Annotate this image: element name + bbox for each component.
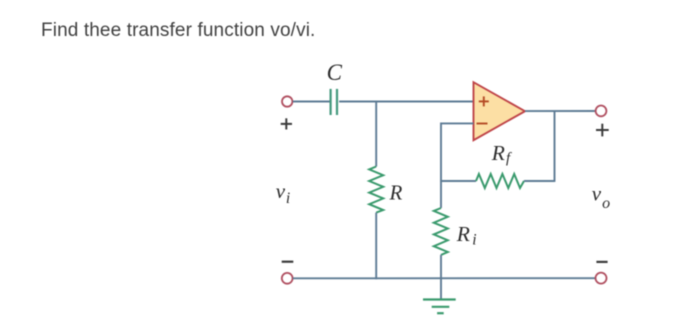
terminal: input bottom — [282, 273, 293, 284]
resistor Ri — [434, 208, 448, 255]
wire: inverting input down to Ri — [440, 123, 442, 209]
wire: resistor R to bottom rail — [375, 213, 377, 280]
wire: Ri to ground through bottom rail — [440, 255, 442, 300]
wire: vertical riser to output wire — [554, 111, 556, 182]
resistor Rf — [476, 174, 524, 188]
svg-text:Find thee transfer function vo: Find thee transfer function vo/vi. — [41, 20, 315, 41]
wire: inverting input horizontal — [441, 122, 474, 124]
svg-text:Ri: Ri — [456, 222, 477, 249]
wire: vertical down to resistor R — [375, 101, 377, 167]
svg-text:vo: vo — [592, 182, 610, 212]
terminal: output top (vo +) — [596, 106, 607, 117]
op-amp minus input marking — [477, 123, 488, 125]
wire: op-amp output to output terminal — [525, 110, 596, 112]
wire: feedback left segment to Rf — [440, 180, 476, 182]
terminal: output bottom — [596, 273, 607, 284]
wire: Rf to output vertical riser — [524, 180, 555, 182]
label plus output side — [596, 124, 609, 137]
resistor R — [369, 167, 383, 213]
svg-text:vi: vi — [276, 179, 290, 207]
svg-text:R: R — [389, 181, 403, 205]
op-amp plus input marking — [479, 96, 489, 106]
wire: input terminal to capacitor — [293, 101, 330, 103]
capacitor C — [331, 89, 337, 115]
ground — [423, 300, 456, 314]
svg-text:Rf: Rf — [491, 141, 512, 167]
label plus input side — [281, 118, 292, 129]
wire: bottom rail — [293, 277, 596, 279]
op-amp U1 — [474, 82, 526, 140]
label minus input side — [282, 261, 294, 263]
terminal: input top (vi +) — [282, 96, 292, 106]
wire: capacitor to op-amp noninverting input — [339, 101, 473, 103]
svg-text:C: C — [327, 60, 343, 85]
label minus output side — [596, 261, 607, 263]
